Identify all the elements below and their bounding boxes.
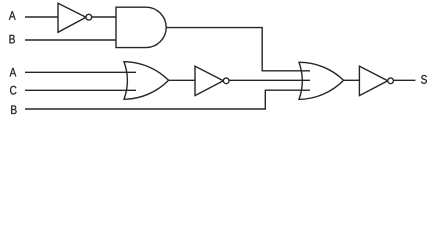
wire C to OR gate U3	[25, 89, 136, 91]
OR gate U3 (middle)	[124, 62, 169, 99]
wire U3 output to inverter U4	[169, 79, 195, 81]
node C (input label)	[10, 86, 16, 95]
OR gate U5 (right, 3-input)	[299, 62, 344, 99]
wire A to OR gate U3	[25, 71, 136, 73]
wire A to inverter U1	[25, 16, 58, 18]
node S (output label)	[421, 75, 427, 84]
wire U5 output to inverter U6	[344, 79, 360, 81]
wire U6 output to node S	[394, 79, 416, 81]
node B (second input label, top)	[9, 35, 14, 44]
inverter U6 (NOT gate, output)	[359, 66, 393, 96]
wire U1 output to AND gate U2	[92, 16, 116, 18]
inverter U4 (NOT gate, middle)	[195, 66, 229, 96]
node A (middle input label)	[10, 68, 17, 77]
wire B to AND gate U2	[25, 39, 116, 41]
wire U4 output to OR gate U5	[229, 79, 310, 81]
node B (bottom input label)	[11, 105, 16, 114]
wire B routed up to OR gate U5	[25, 90, 310, 109]
AND gate U2	[116, 7, 166, 47]
inverter U1 (NOT gate, top)	[58, 3, 92, 32]
node A (top input label)	[9, 11, 16, 20]
wire U2 output routed down to OR gate U5	[166, 28, 310, 71]
